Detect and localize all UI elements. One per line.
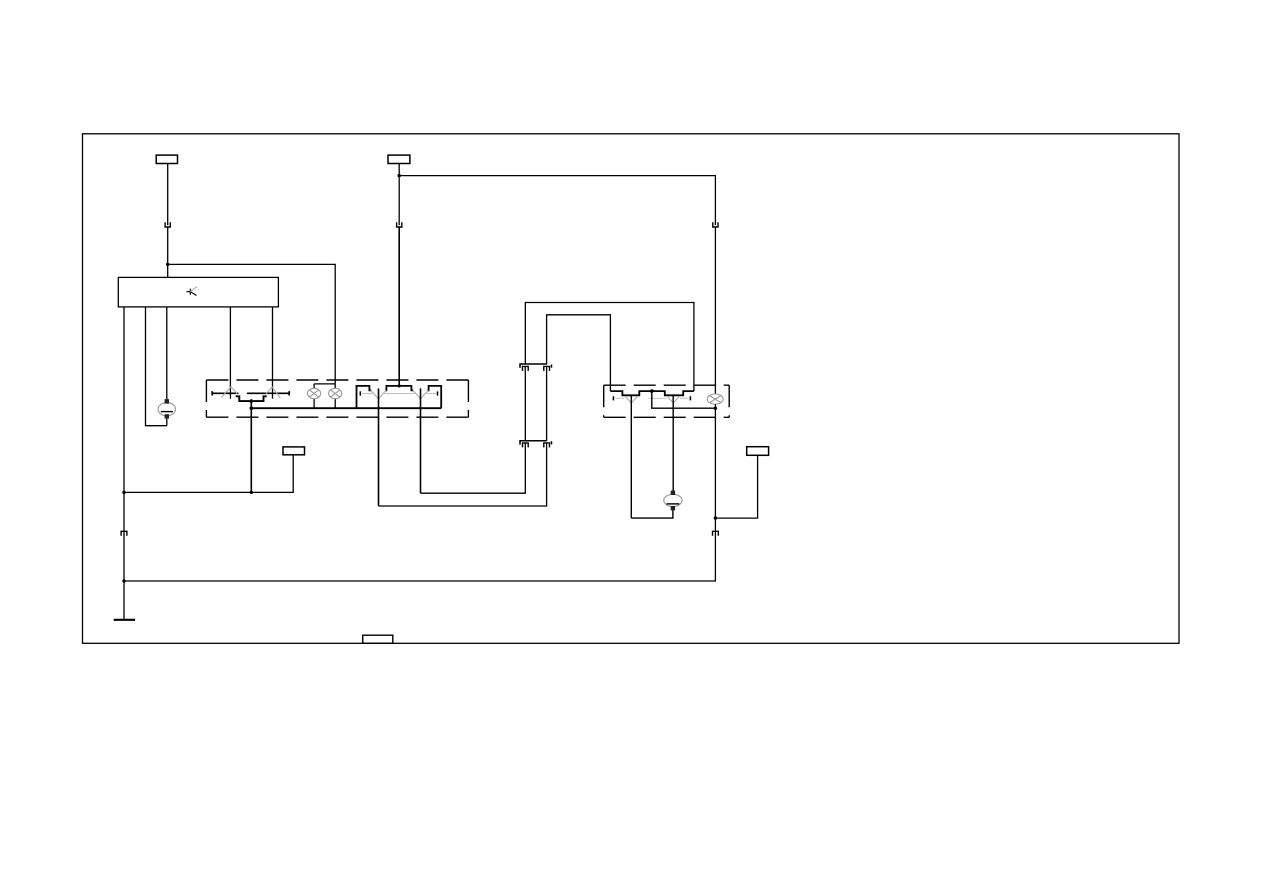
lamp L3 (707, 394, 723, 404)
claw under B1 right (544, 366, 550, 371)
bridge bus between SW1/SW2 (236, 396, 267, 401)
middle connector stack: upper corner wire left (525, 303, 694, 392)
wire C4 down, corner, long bottom bus left (124, 518, 715, 581)
wire C1 to box K1 (167, 227, 169, 277)
node J7 (714, 516, 717, 519)
wire V2 down (420, 388, 422, 493)
wire gauge M2 bottom bracket (631, 510, 673, 518)
sub-box S outline (stepped top) (357, 386, 442, 408)
contact V3 (grey) (625, 396, 638, 403)
K1 pin wire 5 (to switch SW2) (272, 307, 274, 399)
wire gauge bottom (166, 419, 168, 426)
node J3 (250, 399, 254, 403)
contact V4 (grey) (667, 396, 679, 403)
connector C4 (male claw down) (713, 531, 719, 536)
wires between connector bars (525, 367, 546, 441)
claw under B2 left (523, 443, 529, 448)
terminal rect R4 (283, 447, 305, 455)
gauge M1 (sending unit) (158, 403, 175, 416)
wire lamp L3 bottom down (714, 404, 716, 518)
connector C5 (male claw down) (121, 531, 127, 536)
center tap J5 down (652, 391, 716, 408)
connector bar B1 (520, 364, 547, 368)
node J6 (714, 407, 717, 410)
claw under B1 left (523, 366, 529, 371)
wire J1 right to lamps feed (168, 264, 336, 384)
terminal rect R2 (388, 155, 410, 163)
stepped contact rail in box B (610, 391, 694, 395)
tick T1 (551, 365, 553, 368)
node J9 (250, 491, 253, 494)
claw under B2 right (544, 443, 550, 448)
wire C3 down to lamp L3 (714, 227, 716, 394)
contact V2 (grey) in sub-box (413, 390, 428, 399)
wire R2 down (398, 164, 400, 226)
K1 pin wire 3 (to gauge top) (166, 307, 168, 401)
ground G1 (114, 619, 135, 621)
node J8 (122, 491, 125, 494)
lamp L2 (314, 384, 335, 408)
node J4 (250, 406, 254, 410)
node J10 (122, 579, 125, 582)
connector C1 (female cup) (165, 222, 170, 227)
gauge M2 (sending unit) (664, 494, 682, 506)
bus / sub-box bottom line (250, 407, 441, 409)
node J2 (398, 174, 401, 177)
wire J2 right to right drop (399, 176, 715, 226)
switch symbol inside K1 (187, 289, 197, 296)
terminal rect R5 (on border) (363, 635, 393, 643)
connector bar B2 (520, 441, 547, 445)
wire V3 down (630, 395, 632, 518)
center tap down from bridge (250, 401, 252, 492)
wire C2 down to switch box S (398, 227, 400, 386)
relay box K1 (118, 277, 278, 307)
terminal rect R3 (747, 447, 769, 456)
guide line + ticks in box B (615, 397, 688, 399)
border frame (83, 134, 1180, 644)
dashed box B (604, 385, 730, 417)
switch SW1 bar (212, 391, 238, 395)
terminal rect R1 (156, 155, 177, 163)
guide line + ticks in sub-box (362, 393, 436, 395)
tick T2 (551, 441, 553, 444)
node J1 (166, 263, 169, 266)
node J11 (398, 384, 401, 387)
switch SW1 blade (grey) (221, 387, 237, 398)
switch SW2 bar (247, 391, 289, 395)
connector C3 (female cup) (713, 222, 718, 227)
node J5 (650, 389, 654, 393)
K1 pin wire 4 (to switch SW1) (229, 307, 231, 399)
upper corner wire right (547, 315, 611, 391)
dashed box A (206, 380, 468, 417)
wire V1 down (378, 388, 380, 506)
contact V1 (grey) in sub-box (371, 390, 387, 399)
wire below B2 left to V2 (421, 443, 526, 493)
wire V4 down (to battery M2 top) (672, 395, 674, 491)
wire R1 down (167, 164, 169, 226)
K1 pin wire 1 (123, 307, 125, 620)
K1 pin wire 2 (146, 307, 167, 426)
wire R3 down to J7 (715, 455, 757, 518)
wire below B2 right to V1 (379, 443, 547, 506)
lamp L1 (313, 384, 315, 408)
wire bottom-left horizontal to R4 (124, 455, 293, 493)
connector C2 (female cup) (397, 222, 402, 227)
switch SW2 blade (grey) (266, 387, 280, 398)
